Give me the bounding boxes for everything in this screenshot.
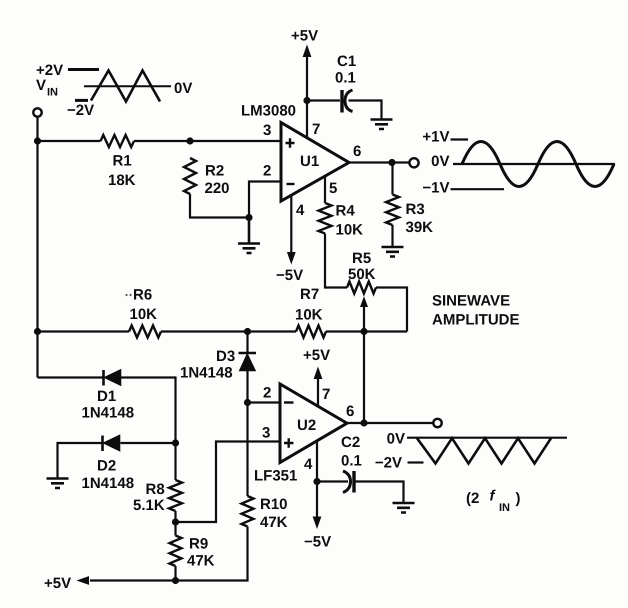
input triangle waveform 0V axis	[84, 85, 171, 87]
capacitor C1	[340, 90, 343, 113]
node R2-ground-pin2 junction	[245, 214, 252, 221]
capacitor C2	[343, 471, 351, 493]
wire R9 bottom to +5V bus	[174, 566, 176, 581]
svg-text:C1: C1	[337, 53, 356, 70]
U1 +5V supply arrow	[306, 56, 308, 101]
svg-text:5.1K: 5.1K	[133, 497, 165, 514]
svg-text:1N4148: 1N4148	[82, 405, 135, 422]
node output-R3 junction	[388, 159, 395, 166]
svg-text:D3: D3	[216, 348, 235, 365]
svg-text:R1: R1	[113, 153, 132, 170]
ground below R3	[382, 247, 404, 257]
svg-text:D1: D1	[97, 388, 116, 405]
output triangle waveform 0V axis	[407, 437, 567, 439]
svg-text:V: V	[36, 77, 46, 94]
node R8-R9-pin3 junction	[172, 518, 179, 525]
svg-text:10K: 10K	[295, 307, 323, 324]
svg-text:2: 2	[263, 163, 271, 180]
svg-text:SINEWAVE: SINEWAVE	[432, 293, 510, 310]
svg-text:R9: R9	[189, 536, 208, 553]
wire U1 pin2	[249, 182, 281, 218]
wire R8 leads	[174, 443, 176, 536]
U2 minus marker	[284, 401, 294, 403]
svg-text:7: 7	[312, 121, 320, 138]
svg-text:0V: 0V	[174, 80, 192, 97]
wire D2 branch	[58, 443, 176, 479]
resistor R5 potentiometer	[347, 282, 376, 294]
resistor R8	[169, 480, 182, 511]
svg-text:LF351: LF351	[254, 468, 297, 485]
svg-text:47K: 47K	[187, 553, 215, 570]
output triangle waveform	[417, 438, 551, 463]
svg-text:(2: (2	[466, 490, 479, 507]
svg-text:R4: R4	[336, 203, 356, 220]
op-amp U2	[280, 384, 347, 463]
svg-text:7: 7	[322, 386, 330, 403]
wire R10 column	[90, 403, 248, 581]
svg-text:10K: 10K	[130, 306, 158, 323]
wire C1 right lead to ground	[349, 101, 382, 120]
node pin7-C1 junction	[303, 97, 310, 104]
resistor R1	[101, 135, 134, 147]
svg-text:3: 3	[262, 425, 270, 442]
wire R5 right wrap-around	[376, 288, 407, 332]
wire R5 wiper down to U2 output	[363, 305, 365, 423]
wire U2 output	[347, 422, 433, 424]
ground below R2	[238, 218, 260, 254]
svg-text:10K: 10K	[336, 222, 364, 239]
svg-text:R5: R5	[352, 250, 371, 267]
svg-text:AMPLITUDE: AMPLITUDE	[432, 312, 520, 329]
svg-text:1N4148: 1N4148	[180, 365, 233, 382]
resistor R7	[296, 326, 326, 338]
node wiper-U2out junction	[360, 419, 367, 426]
diode D3	[239, 352, 257, 355]
svg-text:D2: D2	[97, 458, 116, 475]
node input junction	[34, 137, 41, 144]
input terminal VIN	[33, 108, 41, 116]
resistor R10	[242, 496, 254, 526]
svg-text:LM3080: LM3080	[241, 103, 296, 120]
node D3-pin2-R10 junction	[244, 399, 251, 406]
R5 wiper arrow	[360, 296, 368, 307]
svg-text:1N4148: 1N4148	[82, 475, 135, 492]
resistor R9	[170, 536, 182, 566]
svg-text:+5V: +5V	[291, 28, 318, 45]
wire R3 leads	[391, 163, 393, 247]
svg-text:IN: IN	[499, 502, 510, 514]
svg-text:39K: 39K	[406, 219, 434, 236]
resistor R3	[386, 195, 399, 225]
sine waveform -1V level line	[451, 188, 505, 190]
wire U2 pin3	[176, 442, 282, 523]
node R9-bus junction	[172, 577, 179, 584]
wire C2 right lead to ground	[356, 482, 404, 504]
svg-text:f: f	[490, 488, 497, 505]
svg-text:3: 3	[263, 122, 271, 139]
svg-text:0.1: 0.1	[341, 453, 362, 470]
node D1-D2-R8 junction	[172, 439, 179, 446]
input triangle waveform -2V tick	[75, 99, 88, 102]
svg-text:−5V: −5V	[276, 267, 303, 284]
diode D2	[101, 436, 104, 452]
node bus left junction	[34, 328, 41, 335]
resistor R6	[129, 326, 161, 338]
svg-text:220: 220	[205, 180, 230, 197]
wire U2 pin2	[248, 401, 282, 403]
node bus wiper junction	[360, 328, 367, 335]
sine waveform	[462, 142, 614, 187]
svg-text:R7: R7	[300, 286, 319, 303]
wire left vertical bus	[36, 117, 38, 378]
U2 plus marker	[284, 438, 294, 448]
svg-text:6: 6	[353, 143, 361, 160]
svg-text:5: 5	[329, 180, 337, 197]
wire R4 bottom to R5 left	[325, 234, 347, 288]
svg-text:0V: 0V	[387, 431, 405, 448]
triangle output terminal	[433, 419, 441, 427]
svg-text:0V: 0V	[431, 153, 449, 170]
label R6	[125, 294, 127, 296]
svg-text:4: 4	[304, 456, 313, 473]
wire U2 pin4 to C2 node	[316, 440, 318, 521]
op-amp U1	[281, 123, 349, 202]
wire D1 branch	[38, 378, 176, 444]
svg-text:50K: 50K	[348, 266, 376, 283]
wire U2 pin7	[317, 372, 319, 406]
U1 minus marker	[287, 183, 295, 185]
svg-text:47K: 47K	[260, 514, 288, 531]
svg-text:4: 4	[296, 202, 305, 219]
wire input to U1 pin3	[38, 140, 282, 142]
wire U1 pin5 to R4	[324, 176, 326, 203]
wire C1 left lead	[307, 99, 340, 101]
svg-text:R10: R10	[260, 496, 288, 513]
sine waveform 0V axis	[453, 163, 615, 165]
U2 +5V supply arrow	[314, 367, 323, 380]
wire U1 pin7 to C1 node	[306, 101, 308, 138]
sine waveform +1V level line	[451, 138, 469, 140]
svg-text:): )	[516, 490, 521, 507]
svg-text:U2: U2	[297, 417, 316, 434]
svg-text:C2: C2	[341, 434, 360, 451]
svg-text:2: 2	[263, 385, 271, 402]
svg-text:IN: IN	[47, 87, 58, 99]
output triangle waveform -2V tick	[408, 461, 424, 463]
ground below C1	[371, 120, 393, 130]
wire C2 left lead	[317, 480, 348, 482]
svg-text:R2: R2	[205, 163, 224, 180]
node bus D3 junction	[244, 328, 251, 335]
svg-text:+1V: +1V	[422, 129, 449, 146]
ground at D2	[47, 479, 69, 489]
svg-text:+5V: +5V	[303, 347, 330, 364]
svg-text:R8: R8	[146, 481, 165, 498]
wire R2 bottom to ground branch	[190, 194, 249, 218]
resistor R2	[184, 158, 196, 194]
svg-text:18K: 18K	[108, 172, 136, 189]
diode D1	[102, 370, 105, 386]
svg-text:R6: R6	[133, 287, 152, 304]
wire amplitude bus R6 R7	[38, 330, 408, 332]
wire U1 output	[349, 161, 409, 163]
resistor R4	[319, 203, 332, 233]
svg-text:+5V: +5V	[44, 575, 71, 592]
svg-text:6: 6	[346, 403, 354, 420]
svg-text:−2V: −2V	[67, 102, 94, 119]
+5V bus left arrow	[77, 576, 90, 585]
svg-text:−1V: −1V	[422, 180, 449, 197]
svg-text:R3: R3	[406, 201, 425, 218]
U2 -5V supply arrow	[313, 517, 322, 530]
input triangle waveform	[91, 71, 160, 102]
input triangle waveform +2V level line	[68, 68, 99, 71]
sine output terminal	[409, 158, 418, 167]
svg-text:0.1: 0.1	[335, 70, 356, 87]
node R1-R2 junction	[186, 137, 193, 144]
svg-text:−5V: −5V	[304, 534, 331, 551]
wire D3 branch	[246, 332, 248, 403]
svg-text:−2V: −2V	[375, 455, 402, 472]
U1 plus marker	[286, 138, 295, 148]
svg-text:U1: U1	[300, 153, 319, 170]
node pin4-C2 junction	[313, 478, 320, 485]
U1 -5V supply arrow	[290, 196, 292, 254]
ground below C2	[393, 503, 415, 513]
